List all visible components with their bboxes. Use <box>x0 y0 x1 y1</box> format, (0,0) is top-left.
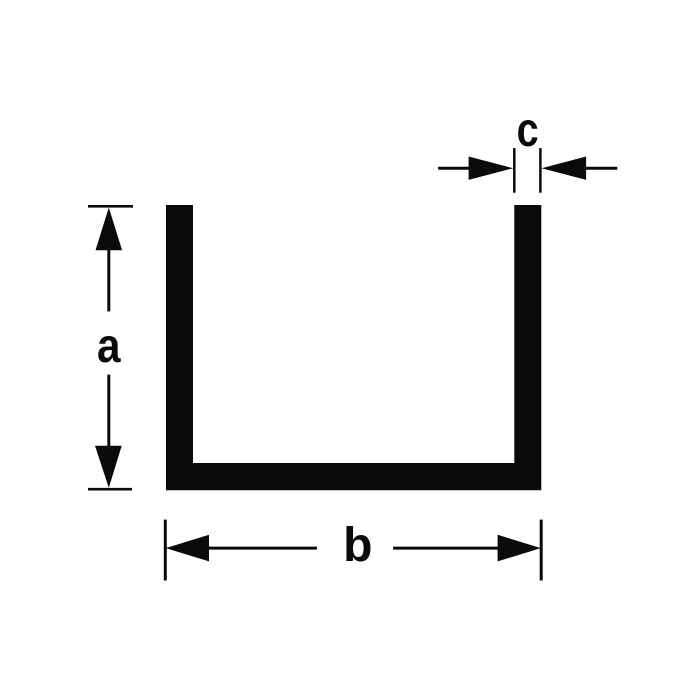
dimension c: left shaft segment <box>438 167 470 170</box>
dimension b: left shaft segment <box>208 547 317 550</box>
label a <box>97 320 121 373</box>
dimension a: upper shaft segment <box>107 249 110 311</box>
dimension a: down arrowhead <box>95 446 122 488</box>
label b <box>343 519 372 572</box>
dimension c: right shaft segment <box>585 167 617 170</box>
svg-text:c: c <box>517 104 539 157</box>
dimension a: top extension tick <box>88 205 133 208</box>
dimension c: rightward arrowhead <box>469 157 514 180</box>
label c <box>517 104 539 157</box>
dimension b: right extension tick <box>540 520 543 581</box>
svg-text:a: a <box>97 320 121 373</box>
dimension b: left arrowhead <box>166 535 209 562</box>
dimension c: left extension tick <box>513 148 516 193</box>
dimension b: right shaft segment <box>393 547 499 550</box>
dimension c: right extension tick <box>539 148 542 193</box>
svg-text:b: b <box>343 519 372 572</box>
dimension b: right arrowhead <box>498 535 541 562</box>
U-channel profile cross-section <box>166 205 541 490</box>
dimension a: lower shaft segment <box>107 375 110 447</box>
dimension c: leftward arrowhead <box>542 157 587 180</box>
dimension b: left extension tick <box>164 520 167 581</box>
dimension a: bottom extension tick <box>88 488 132 491</box>
dimension a: up arrowhead <box>96 208 123 251</box>
